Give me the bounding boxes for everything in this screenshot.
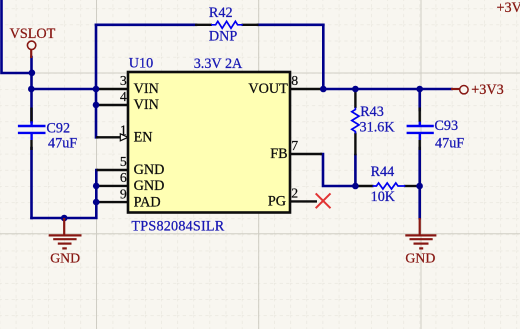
- svg-text:47uF: 47uF: [435, 136, 464, 152]
- svg-text:3.3V 2A: 3.3V 2A: [194, 56, 243, 72]
- svg-text:3: 3: [120, 73, 127, 88]
- svg-text:R43: R43: [360, 104, 384, 120]
- svg-text:7: 7: [291, 138, 298, 153]
- svg-text:5: 5: [120, 154, 127, 169]
- svg-text:GND: GND: [50, 251, 80, 266]
- svg-text:R44: R44: [371, 164, 395, 180]
- svg-text:C93: C93: [434, 118, 458, 134]
- svg-text:GND: GND: [134, 178, 165, 194]
- svg-text:U10: U10: [129, 55, 153, 71]
- svg-text:C92: C92: [46, 120, 70, 136]
- svg-text:1: 1: [120, 123, 127, 138]
- svg-text:8: 8: [291, 73, 298, 88]
- svg-text:VOUT: VOUT: [248, 81, 288, 97]
- svg-text:+3V3: +3V3: [497, 0, 520, 16]
- svg-text:PG: PG: [268, 194, 286, 210]
- svg-text:TPS82084SILR: TPS82084SILR: [131, 219, 224, 235]
- svg-text:2: 2: [291, 186, 298, 201]
- svg-text:VIN: VIN: [134, 97, 159, 113]
- svg-text:R42: R42: [209, 5, 233, 21]
- svg-text:4: 4: [120, 89, 127, 104]
- svg-text:VSLOT: VSLOT: [10, 26, 56, 42]
- svg-text:47uF: 47uF: [48, 136, 77, 152]
- svg-text:31.6K: 31.6K: [360, 119, 396, 135]
- svg-text:9: 9: [120, 186, 127, 201]
- svg-text:GND: GND: [134, 162, 165, 178]
- svg-text:10K: 10K: [371, 189, 396, 205]
- svg-text:PAD: PAD: [134, 194, 161, 210]
- svg-text:6: 6: [120, 170, 127, 185]
- svg-text:GND: GND: [405, 251, 435, 266]
- svg-text:+3V3: +3V3: [471, 82, 503, 98]
- svg-text:DNP: DNP: [209, 29, 237, 45]
- svg-text:VIN: VIN: [134, 81, 159, 97]
- svg-text:EN: EN: [134, 130, 153, 146]
- svg-text:FB: FB: [270, 146, 287, 162]
